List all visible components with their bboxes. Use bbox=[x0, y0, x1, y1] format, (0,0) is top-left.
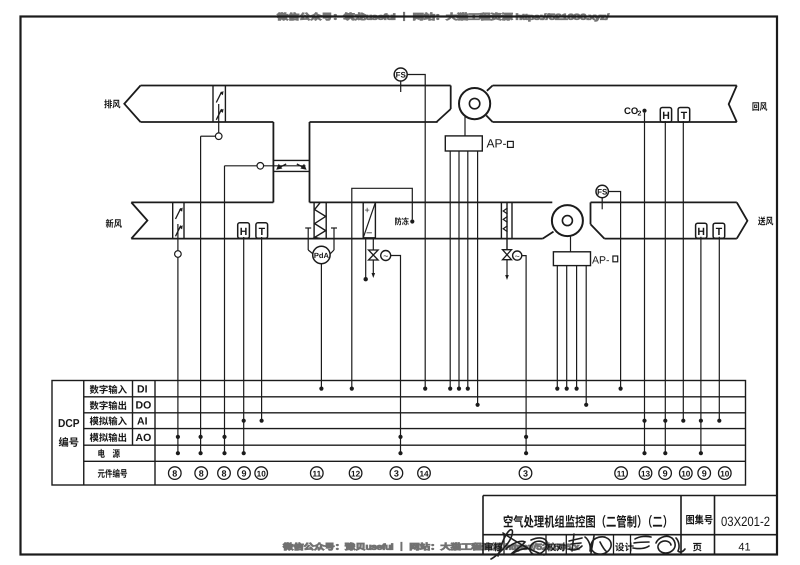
svg-text:03X201-2: 03X201-2 bbox=[721, 514, 770, 529]
svg-text:设计: 设计 bbox=[615, 540, 634, 554]
svg-text:9: 9 bbox=[663, 468, 668, 478]
svg-text:AP-: AP- bbox=[487, 137, 507, 151]
svg-text:DI: DI bbox=[137, 384, 148, 396]
svg-text:H: H bbox=[697, 226, 705, 238]
wire FS2 to table bbox=[608, 192, 620, 389]
svg-text:新风: 新风 bbox=[106, 216, 123, 230]
wire damper D3 to table bbox=[177, 257, 179, 453]
svg-text:3: 3 bbox=[523, 468, 528, 478]
svg-text:回风: 回风 bbox=[752, 99, 768, 113]
fresh/supply duct bottom band outline bbox=[131, 202, 747, 238]
humidifier valve V2 bbox=[503, 250, 512, 260]
svg-text:11: 11 bbox=[617, 469, 626, 478]
coil water pipe 1 bbox=[365, 239, 367, 278]
panel AP-1 bbox=[445, 136, 482, 151]
damper D3 actuator bbox=[177, 224, 179, 251]
damper D1 actuator bbox=[218, 104, 220, 133]
svg-text:14: 14 bbox=[419, 469, 429, 478]
svg-text:3: 3 bbox=[394, 468, 399, 478]
svg-text:FS: FS bbox=[597, 188, 608, 197]
panel AP-2 bbox=[553, 252, 590, 266]
signature (校对) bbox=[569, 534, 611, 554]
svg-text:T: T bbox=[716, 226, 723, 238]
svg-text:9: 9 bbox=[702, 468, 707, 478]
signature (设计) bbox=[633, 536, 685, 553]
sensor T (fresh air) bbox=[256, 223, 268, 238]
title block grid bbox=[483, 496, 777, 555]
svg-text:T: T bbox=[259, 226, 266, 238]
signature (审核) bbox=[491, 530, 547, 559]
svg-text:13: 13 bbox=[641, 469, 651, 478]
svg-text:8: 8 bbox=[172, 468, 177, 478]
wire fan M1 to panel bbox=[464, 117, 466, 136]
DCP table grid bbox=[52, 381, 746, 486]
svg-text:PdA: PdA bbox=[314, 251, 330, 260]
sensor T (return air) bbox=[678, 108, 690, 123]
damper D1 (exhaust duct) bbox=[213, 86, 225, 123]
wires panel AP-2 to table bbox=[556, 266, 558, 389]
svg-text:11: 11 bbox=[312, 469, 321, 478]
AO+PWR wires bbox=[176, 435, 180, 439]
svg-text:10: 10 bbox=[257, 469, 267, 478]
valve V1 actuator bbox=[381, 251, 391, 261]
svg-text:2: 2 bbox=[638, 111, 642, 118]
humidifier HU1 bbox=[501, 202, 512, 249]
svg-text:DCP: DCP bbox=[58, 418, 80, 430]
svg-text:模拟输入: 模拟输入 bbox=[90, 414, 128, 428]
svg-text:编号: 编号 bbox=[59, 435, 80, 450]
svg-text:图集号: 图集号 bbox=[686, 513, 714, 528]
svg-text:10: 10 bbox=[681, 469, 691, 478]
wire damper D2 to table bbox=[224, 166, 226, 453]
svg-text:~: ~ bbox=[515, 251, 520, 261]
mixing channel walls bbox=[273, 122, 309, 202]
connection dots bbox=[176, 387, 722, 456]
svg-text:元件编号: 元件编号 bbox=[98, 466, 128, 480]
wires panel AP-1 to table bbox=[449, 151, 451, 389]
svg-text:H: H bbox=[662, 110, 670, 122]
damper D2 actuator bbox=[264, 165, 306, 167]
svg-text:−: − bbox=[366, 228, 372, 240]
svg-text:送风: 送风 bbox=[758, 213, 774, 227]
sensor PdA (filter dP) bbox=[305, 227, 311, 229]
wire fan M2 to panel bbox=[570, 236, 572, 252]
sensor T (supply air) bbox=[713, 223, 725, 238]
svg-text:AO: AO bbox=[136, 432, 152, 444]
svg-text:排风: 排风 bbox=[104, 97, 121, 111]
svg-text:~: ~ bbox=[383, 251, 388, 261]
svg-text:+: + bbox=[365, 205, 370, 215]
sensor H (supply air) bbox=[696, 223, 707, 238]
svg-text:CO: CO bbox=[624, 106, 638, 117]
wire PdA to table bbox=[320, 264, 322, 389]
svg-text:H: H bbox=[240, 226, 248, 238]
svg-text:数字输入: 数字输入 bbox=[90, 382, 128, 396]
wire FS1 to table bbox=[407, 75, 425, 389]
svg-text:10: 10 bbox=[720, 469, 730, 478]
svg-text:DO: DO bbox=[136, 400, 152, 412]
sensor H (return air) bbox=[660, 108, 671, 123]
wire CO2 to table bbox=[644, 113, 646, 453]
AI wires bbox=[260, 419, 264, 423]
coil water pipe 2 + valve V1 bbox=[372, 239, 374, 250]
svg-text:空气处理机组监控图（二管制）（二）: 空气处理机组监控图（二管制）（二） bbox=[503, 511, 673, 531]
AI+PWR wires bbox=[242, 419, 246, 423]
DI wires bbox=[319, 387, 323, 391]
svg-text:12: 12 bbox=[351, 469, 361, 478]
fan M2 (supply fan) bbox=[543, 232, 554, 239]
svg-text:8: 8 bbox=[221, 468, 226, 478]
wire damper D1 to table bbox=[200, 136, 202, 453]
svg-text:FS: FS bbox=[396, 71, 407, 80]
exhaust/return duct top band outline bbox=[124, 86, 737, 123]
svg-text:微信公众号：豫贝useful ｜ 网站：大猫工程资源 htt: 微信公众号：豫贝useful ｜ 网站：大猫工程资源 https://52168… bbox=[283, 542, 579, 553]
svg-text:防冻: 防冻 bbox=[395, 216, 410, 228]
svg-text:AP-: AP- bbox=[592, 255, 610, 267]
svg-text:T: T bbox=[681, 110, 688, 122]
damper D2 (mixing, horizontal) bbox=[273, 160, 309, 171]
svg-text:数字输出: 数字输出 bbox=[90, 398, 128, 412]
filter F1 bbox=[314, 202, 326, 238]
svg-text:页: 页 bbox=[693, 540, 703, 554]
heating coil HC1 bbox=[363, 202, 375, 237]
fan M1 (exhaust fan) bbox=[450, 86, 452, 110]
flow switch FS2 (supply) bbox=[596, 185, 608, 197]
svg-text:微信公众号：筑龙useful ｜ 网站：大猫工程资源 htt: 微信公众号：筑龙useful ｜ 网站：大猫工程资源 https://52168… bbox=[277, 12, 610, 23]
svg-text:8: 8 bbox=[199, 468, 204, 478]
svg-text:41: 41 bbox=[738, 542, 750, 554]
damper D3 (fresh air duct) bbox=[173, 202, 184, 238]
DO wires bbox=[476, 403, 480, 407]
element number circles bbox=[169, 467, 732, 480]
svg-text:模拟输出: 模拟输出 bbox=[90, 430, 128, 444]
svg-text:9: 9 bbox=[241, 468, 246, 478]
sensor H (fresh air) bbox=[238, 223, 250, 238]
svg-text:AI: AI bbox=[137, 416, 148, 428]
flow switch FS1 (exhaust) bbox=[394, 68, 407, 81]
svg-text:电 源: 电 源 bbox=[98, 446, 121, 460]
